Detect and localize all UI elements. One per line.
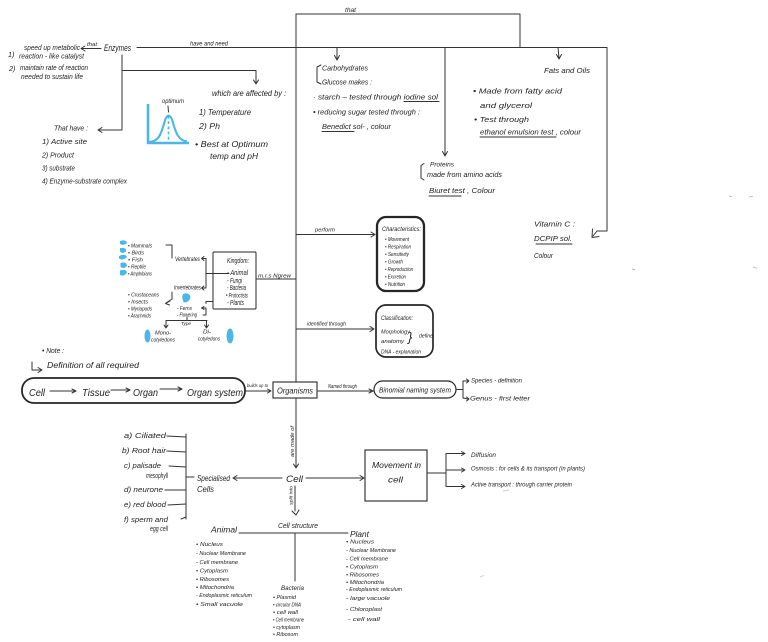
svg-text:• Made from fatty acid: • Made from fatty acid <box>473 87 563 96</box>
svg-text:Osmosis : for cells & its t: Osmosis : for cells & its transport (in … <box>471 466 585 473</box>
chain pill box <box>22 378 245 403</box>
wire bracket to specialised <box>186 476 194 478</box>
arrow down to fats and oils <box>557 48 562 60</box>
characteristics box <box>377 217 424 291</box>
svg-text:Specialised: Specialised <box>197 473 230 483</box>
svg-text:Cells: Cells <box>197 484 215 494</box>
svg-text:- Chloroplast: - Chloroplast <box>346 607 382 613</box>
organisms box <box>273 382 317 398</box>
blue leaf right <box>227 329 234 344</box>
svg-text:maintain rate of reaction: maintain rate of reaction <box>20 63 88 72</box>
arrow cell left to specialised <box>233 476 282 481</box>
svg-text:Type: Type <box>181 321 191 327</box>
blue leaf left <box>145 330 151 343</box>
svg-text:- Plants: - Plants <box>227 300 244 307</box>
arrow that -> notes <box>81 46 101 51</box>
svg-text:DNA - explanation: DNA - explanation <box>381 350 421 356</box>
wire mrs gren to spine <box>256 278 296 280</box>
bracket specialised cells <box>185 434 187 519</box>
svg-text:• Mitochondria: • Mitochondria <box>346 580 384 586</box>
svg-text:• Mammals: • Mammals <box>128 244 152 250</box>
svg-text:mesophyll: mesophyll <box>146 473 168 480</box>
svg-text:Active transport : through: Active transport : through carrier prote… <box>470 482 572 489</box>
svg-text:• Insects: • Insects <box>128 300 148 306</box>
svg-text:Organ system: Organ system <box>187 388 243 399</box>
wire main spine vertical <box>295 14 297 382</box>
arrow organ-organsystem <box>160 387 182 391</box>
svg-text:• cytoplasm: • cytoplasm <box>273 625 301 631</box>
svg-text:Cell: Cell <box>29 388 46 399</box>
svg-text:identified through: identified through <box>307 322 346 328</box>
svg-text:- Bacteria: - Bacteria <box>227 285 246 292</box>
svg-text:- Cell membrane: - Cell membrane <box>196 560 238 566</box>
svg-text:• Plasmid: • Plasmid <box>273 595 297 601</box>
svg-text:Species - definition: Species - definition <box>471 379 523 385</box>
svg-text:• Growth: • Growth <box>385 260 403 266</box>
svg-text:Definition of all required: Definition of all required <box>47 361 140 370</box>
svg-text:that: that <box>345 7 357 14</box>
svg-text:which are affected by :: which are affected by : <box>212 89 286 98</box>
graph dashed optimum line <box>168 116 170 142</box>
classification box <box>376 305 433 357</box>
svg-text:egg cell: egg cell <box>150 526 168 533</box>
binomial pill <box>374 381 456 398</box>
movement box <box>365 450 427 501</box>
svg-text:• Excretion: • Excretion <box>385 275 406 281</box>
svg-text:• Mitochondria: • Mitochondria <box>196 585 234 591</box>
arrow cell-tissue <box>50 389 76 393</box>
wire movement fanout <box>427 452 465 489</box>
svg-text:• Respiration: • Respiration <box>385 245 411 251</box>
svg-text:That have :: That have : <box>54 124 88 133</box>
svg-text:Di-: Di- <box>203 330 211 336</box>
graph optimum tick <box>167 106 170 112</box>
svg-text:• Sensitivity: • Sensitivity <box>385 252 409 258</box>
svg-text:d) neurone: d) neurone <box>124 487 163 494</box>
svg-text:Named through: Named through <box>328 384 357 390</box>
svg-text:- cell wall: - cell wall <box>348 617 381 623</box>
svg-text:- large vacuole: - large vacuole <box>346 596 390 602</box>
svg-text:anatomy: anatomy <box>381 339 405 345</box>
bracket species genus <box>457 379 469 401</box>
svg-text:Cell structure: Cell structure <box>278 523 318 530</box>
svg-text:• Birds: • Birds <box>128 251 144 257</box>
svg-text:optimum: optimum <box>162 98 184 105</box>
wire top that line <box>296 14 520 47</box>
wire branch to affected-by <box>122 71 259 85</box>
svg-text:Colour: Colour <box>534 251 554 260</box>
svg-text:• Cytoplasm: • Cytoplasm <box>346 565 378 571</box>
arrowhead vitamin C <box>592 229 599 238</box>
arrow builds up to <box>246 389 271 393</box>
svg-text:Plant: Plant <box>350 530 370 539</box>
svg-text:1) Temperature: 1) Temperature <box>199 107 251 117</box>
wire cell structure split <box>239 533 348 581</box>
svg-text:Tissue: Tissue <box>82 388 110 399</box>
svg-text:• Reptile: • Reptile <box>128 265 146 271</box>
svg-text:have and need: have and need <box>190 42 229 48</box>
underline biuret <box>429 195 461 197</box>
svg-text:b) Root hair: b) Root hair <box>122 448 167 455</box>
svg-text:• Amphibians: • Amphibians <box>128 272 152 278</box>
arrow down to carbohydrates <box>335 48 340 61</box>
svg-text:• Nucleus: • Nucleus <box>196 542 223 548</box>
bracket proteins <box>421 164 424 181</box>
bracket invertebrates <box>166 292 173 305</box>
svg-text:• Protoctists: • Protoctists <box>226 294 248 300</box>
underline benedict sol <box>322 131 354 133</box>
svg-text:• Ribosomes: • Ribosomes <box>346 573 379 579</box>
svg-text:3) substrate: 3) substrate <box>42 164 75 173</box>
svg-text:Binomial naming system: Binomial naming system <box>379 388 451 395</box>
svg-text:- Fungi: - Fungi <box>227 278 242 285</box>
svg-text:• Small vacuole: • Small vacuole <box>196 602 243 608</box>
svg-text:- Nuclear Membrane: - Nuclear Membrane <box>346 548 396 554</box>
svg-text:Vitamin C :: Vitamin C : <box>534 220 575 229</box>
svg-text:Glucose makes :: Glucose makes : <box>322 78 372 87</box>
wire to Animal row <box>206 273 229 275</box>
wire right vertical to vitamin C <box>593 48 607 237</box>
note arrow corner <box>32 362 42 373</box>
svg-text:• Arachnids: • Arachnids <box>128 314 151 320</box>
svg-text:reaction - like catalyst: reaction - like catalyst <box>19 52 85 61</box>
svg-text:Biuret test , Colour: Biuret test , Colour <box>429 186 496 195</box>
svg-text:are made of: are made of <box>290 425 296 457</box>
svg-text:• Movement: • Movement <box>385 237 409 243</box>
svg-text:• Myriapods: • Myriapods <box>128 307 152 313</box>
arrow organisms down to cell <box>294 398 299 468</box>
svg-text:Kingdom:: Kingdom: <box>227 256 249 265</box>
svg-text:Enzymes: Enzymes <box>104 43 131 53</box>
arrow long vertical to proteins <box>443 48 448 157</box>
svg-text:• Ribosomes: • Ribosomes <box>196 577 229 583</box>
arrow tissue-organ <box>111 388 130 392</box>
svg-text:that: that <box>87 42 98 48</box>
bracket vertebrates <box>166 245 172 258</box>
svg-text:DCPIP sol.: DCPIP sol. <box>534 234 572 243</box>
bracket carbohydrates <box>317 65 321 84</box>
svg-text:2): 2) <box>8 64 15 73</box>
svg-text:• Best at Optimum: • Best at Optimum <box>195 139 268 149</box>
svg-text:• Cytoplasm: • Cytoplasm <box>196 569 228 575</box>
underline iodine sol <box>404 101 439 103</box>
kingdom box <box>213 252 256 309</box>
svg-text:- Endoplasmic reticulum: - Endoplasmic reticulum <box>346 587 402 593</box>
svg-text:c) palisade: c) palisade <box>124 463 161 470</box>
svg-text:Benedict sol- , colour: Benedict sol- , colour <box>322 122 392 131</box>
svg-text:Movement in: Movement in <box>372 460 421 470</box>
svg-text:• cell wall: • cell wall <box>273 610 299 616</box>
svg-text:• reducing sugar tested thr: • reducing sugar tested through : <box>313 108 420 117</box>
wire have-and-need horizontal <box>137 47 607 49</box>
svg-text:a) Ciliated: a) Ciliated <box>124 433 168 440</box>
paper speck <box>729 195 732 198</box>
graph bell curve blue <box>149 116 187 142</box>
svg-text:- Flowering: - Flowering <box>177 313 198 319</box>
svg-text:Animal: Animal <box>210 526 237 535</box>
arrow named through <box>318 389 373 393</box>
svg-text:split into: split into <box>289 486 294 505</box>
svg-text:Mono-: Mono- <box>155 331 171 337</box>
svg-text:- Animal: - Animal <box>227 270 248 277</box>
svg-text:• Test through: • Test through <box>474 115 529 124</box>
svg-text:Carbohydrates: Carbohydrates <box>322 64 368 73</box>
blue animal doodles <box>120 240 127 244</box>
svg-text:Diffusion: Diffusion <box>471 452 497 459</box>
svg-text:Morphology: Morphology <box>381 330 411 336</box>
svg-text:cotyledons: cotyledons <box>198 337 220 343</box>
svg-text:needed to sustain life: needed to sustain life <box>21 72 83 81</box>
svg-text:- Nuclear Membrane: - Nuclear Membrane <box>196 551 246 557</box>
svg-text:• Reproduction: • Reproduction <box>385 267 413 273</box>
wire enzymes down branch to that-have <box>98 55 122 133</box>
wire vertebrate-invertebrate connector <box>202 257 207 291</box>
svg-text:Genus - first letter: Genus - first letter <box>470 397 531 403</box>
svg-text:Proteins: Proteins <box>430 162 455 169</box>
svg-text:• Note :: • Note : <box>42 346 64 355</box>
arrow cell down to cell structure <box>292 486 299 515</box>
svg-text:1): 1) <box>8 50 14 59</box>
svg-text:- Cell membrane: - Cell membrane <box>346 557 388 563</box>
svg-text:cell: cell <box>388 475 404 485</box>
svg-text:Classification:: Classification: <box>381 315 413 322</box>
graph axes blue <box>148 104 189 143</box>
svg-text:Characteristics:: Characteristics: <box>382 226 421 233</box>
svg-text:• Nucleus: • Nucleus <box>346 540 374 546</box>
svg-text:· starch – tested through: · starch – tested through iodine sol <box>313 93 438 102</box>
arrow identified through <box>296 327 374 332</box>
svg-text:Bacteria: Bacteria <box>281 585 304 592</box>
svg-text:• circular DNA: • circular DNA <box>273 603 301 609</box>
svg-text:2) Ph: 2) Ph <box>198 121 220 131</box>
svg-text:• Crustaceans: • Crustaceans <box>128 293 159 299</box>
svg-text:m.r.s Ngrew: m.r.s Ngrew <box>258 274 292 280</box>
svg-text:• Cell membrane: • Cell membrane <box>273 618 304 624</box>
svg-text:made from amino acids: made from amino acids <box>427 170 502 179</box>
arrow cell right to movement <box>306 476 364 481</box>
svg-text:e) red blood: e) red blood <box>124 502 167 509</box>
svg-text:Fats and Oils: Fats and Oils <box>544 66 590 75</box>
svg-text:- Ferns: - Ferns <box>177 306 192 312</box>
svg-text:f) sperm and: f) sperm and <box>124 517 169 524</box>
svg-text:• Fish: • Fish <box>128 258 143 264</box>
svg-text:Cell: Cell <box>286 474 304 485</box>
svg-text:2) Product: 2) Product <box>41 151 75 160</box>
svg-text:and glycerol: and glycerol <box>480 101 532 110</box>
svg-text:Organ: Organ <box>133 388 158 399</box>
svg-text:perform: perform <box>314 228 335 234</box>
svg-text:• Nutrition: • Nutrition <box>385 282 405 288</box>
wire type split <box>164 317 209 328</box>
svg-text:define: define <box>419 334 433 340</box>
wire ferns connector <box>202 302 214 316</box>
svg-text:- Endoplasmic reticulum: - Endoplasmic reticulum <box>196 593 252 599</box>
svg-text:ethanol emulsion test , colour: ethanol emulsion test , colour <box>480 128 582 137</box>
svg-text:Vertebrates: Vertebrates <box>175 256 200 263</box>
underline ethanol emulsion <box>480 136 556 138</box>
svg-text:temp and pH: temp and pH <box>210 151 259 161</box>
blue bird doodle <box>182 293 190 302</box>
svg-text:4) Enzyme-substrate complex: 4) Enzyme-substrate complex <box>42 177 127 186</box>
svg-text:cotyledons: cotyledons <box>151 338 175 344</box>
arrow perform <box>296 232 375 237</box>
svg-text:Invertebrates: Invertebrates <box>174 285 201 292</box>
svg-text:Organisms: Organisms <box>277 387 313 396</box>
svg-text:1) Active site: 1) Active site <box>42 137 87 146</box>
svg-text:• Ribosom: • Ribosom <box>273 632 299 638</box>
underline dcpip <box>536 243 572 245</box>
svg-text:builds up to: builds up to <box>247 383 268 389</box>
